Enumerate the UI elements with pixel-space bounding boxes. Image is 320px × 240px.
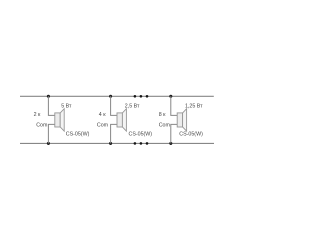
ellipsis continuation dots top rail: [134, 95, 149, 98]
node junction dot top LS3: [169, 95, 172, 98]
svg-text:1,25 Вт: 1,25 Вт: [185, 104, 203, 110]
wire LS3 bottom elbow: [171, 124, 177, 143]
node junction dot bottom LS1: [47, 142, 50, 145]
node junction dot top LS2: [109, 95, 112, 98]
wire LS1 bottom elbow: [48, 124, 54, 143]
svg-text:CS-05(W): CS-05(W): [179, 132, 203, 138]
node junction dot top LS1: [47, 95, 50, 98]
wire LS2 bottom elbow: [111, 124, 117, 143]
loudspeaker LS3 cone: [183, 109, 187, 131]
svg-text:8 к: 8 к: [159, 112, 166, 118]
svg-text:5 Вт: 5 Вт: [61, 104, 72, 110]
wire LS2 top elbow: [111, 96, 117, 115]
ellipsis continuation dots bottom rail: [134, 142, 149, 145]
svg-text:2,5 Вт: 2,5 Вт: [125, 104, 140, 110]
svg-text:4 к: 4 к: [99, 112, 106, 118]
node junction dot bottom LS2: [109, 142, 112, 145]
wire LS3 top elbow: [171, 96, 177, 115]
loudspeaker LS1 cone: [60, 109, 64, 131]
loudspeaker LS1 body: [55, 113, 60, 127]
wire LS1 top elbow: [48, 96, 54, 115]
svg-text:Com: Com: [159, 123, 171, 129]
node junction dot bottom LS3: [169, 142, 172, 145]
loudspeaker LS2 body: [117, 113, 122, 127]
loudspeaker LS3 body: [177, 113, 182, 127]
loudspeaker LS2 cone: [122, 109, 126, 131]
svg-text:Com: Com: [97, 123, 109, 129]
svg-text:CS-05(W): CS-05(W): [66, 132, 90, 138]
svg-text:Com: Com: [36, 122, 48, 128]
wire top rail (line bus +): [20, 95, 214, 97]
svg-text:2 к: 2 к: [34, 112, 41, 118]
wire bottom rail (line bus Com): [20, 142, 214, 144]
svg-text:CS-05(W): CS-05(W): [129, 132, 153, 138]
